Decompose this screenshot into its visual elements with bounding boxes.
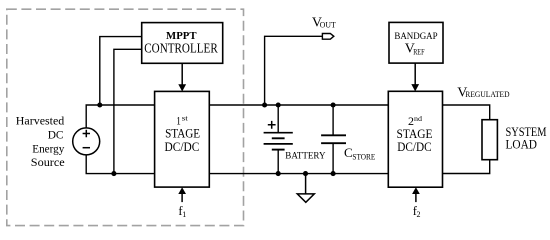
label C_STORE: [344, 145, 375, 161]
wire V_OUT tap: [265, 36, 323, 105]
V_OUT terminal flag: [322, 34, 333, 40]
bandgap reference block: [389, 22, 443, 63]
ground: [297, 174, 314, 203]
svg-text:STAGE: STAGE: [165, 127, 200, 141]
MPPT controller block: [142, 23, 223, 64]
svg-text:Energy: Energy: [32, 142, 64, 156]
wire bottom rail left (source to 1st stage): [86, 155, 154, 174]
svg-text:REGULATED: REGULATED: [465, 89, 509, 99]
junction dot bottom rail at ground: [303, 171, 308, 176]
wire battery bottom lead: [277, 150, 279, 174]
wire MPPT lower sense tap: [114, 49, 142, 173]
wire top rail left (source to 1st stage): [86, 105, 154, 128]
system load block: [482, 120, 497, 160]
junction dot top rail at battery: [276, 102, 281, 107]
svg-text:STAGE: STAGE: [397, 127, 433, 141]
svg-text:LOAD: LOAD: [506, 137, 538, 152]
wire battery top lead: [277, 105, 279, 133]
svg-text:DC/DC: DC/DC: [397, 140, 431, 154]
svg-text:Harvested: Harvested: [16, 114, 65, 128]
svg-text:BATTERY: BATTERY: [285, 151, 326, 161]
wire 2nd stage to load bottom: [443, 160, 490, 174]
arrow bandgap to 2nd stage: [411, 63, 419, 91]
node label V_OUT: [312, 16, 337, 31]
f2 clock arrow into 2nd stage: [412, 187, 420, 202]
label f1: [178, 204, 186, 219]
svg-text:OUT: OUT: [320, 20, 337, 30]
wire capacitor top lead: [332, 105, 334, 135]
junction dot bottom rail at capacitor: [331, 171, 336, 176]
DC source circle: [73, 128, 100, 155]
wire bottom rail middle (1st stage to 2nd stage): [209, 173, 388, 175]
wire capacitor bottom lead: [332, 143, 334, 173]
svg-text:BANDGAP: BANDGAP: [394, 31, 437, 41]
svg-text:1: 1: [182, 210, 186, 219]
junction dot top rail at V_OUT tap: [262, 102, 267, 107]
battery: [264, 121, 293, 150]
2nd stage DC/DC converter block: [388, 91, 442, 187]
svg-text:DC: DC: [48, 128, 64, 142]
svg-text:STORE: STORE: [352, 151, 375, 161]
junction dot top rail at MPPT upper tap: [97, 102, 102, 107]
dashed harvester boundary box: [7, 9, 244, 225]
capacitor C_STORE: [321, 135, 346, 143]
node label V_REGULATED: [457, 85, 509, 100]
label f2: [413, 204, 421, 219]
1st stage DC/DC converter block: [155, 91, 210, 187]
wire 2nd stage to load top: [443, 105, 490, 120]
svg-text:CONTROLLER: CONTROLLER: [144, 40, 218, 55]
svg-text:2: 2: [417, 210, 421, 219]
svg-text:C: C: [344, 145, 353, 160]
svg-text:REF: REF: [413, 48, 425, 57]
svg-text:nd: nd: [414, 114, 422, 123]
label SYSTEM LOAD: [506, 124, 547, 152]
wire top rail middle (1st stage to 2nd stage): [209, 104, 388, 106]
harvested DC energy source label: [16, 114, 65, 170]
wire MPPT upper sense tap: [100, 37, 142, 105]
svg-text:Source: Source: [31, 155, 65, 169]
arrow MPPT to 1st stage: [178, 63, 186, 91]
junction dot bottom rail at battery: [276, 171, 281, 176]
svg-text:DC/DC: DC/DC: [165, 140, 200, 154]
junction dot top rail at capacitor: [331, 102, 336, 107]
junction dot bottom rail at MPPT lower tap: [111, 171, 116, 176]
f1 clock arrow into 1st stage: [178, 187, 186, 202]
